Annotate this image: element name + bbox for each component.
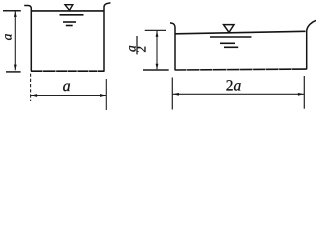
vertical dimension line a (left tank) [14, 12, 16, 71]
bottom arrowhead [156, 64, 159, 70]
surface symbol stroke 3 [224, 46, 238, 48]
surface symbol stroke 2 [63, 21, 76, 23]
water surface line right tank (slight scan tilt) [176, 31, 306, 34]
svg-text:2: 2 [134, 46, 149, 53]
left arrowhead [173, 93, 179, 96]
left wall of left tank [24, 6, 31, 72]
right wall of left tank [104, 3, 111, 72]
right extension line (2a dim) [303, 76, 305, 109]
horizontal dimension line a (left tank width) [31, 95, 106, 97]
surface symbol stroke 2 [220, 42, 235, 44]
tank bottom (dashed) right tank [175, 68, 307, 71]
bottom extension tick (left dim) [6, 71, 21, 73]
bottom arrowhead [14, 65, 17, 71]
top arrowhead [14, 11, 17, 17]
free surface symbol triangle left tank [65, 5, 73, 11]
left arrowhead [31, 94, 37, 97]
horizontal dimension line 2a [173, 93, 304, 95]
right arrowhead [100, 94, 106, 97]
water surface line left tank [31, 10, 104, 12]
top extension tick (a/2 dim) [145, 29, 166, 31]
svg-text:2a: 2a [226, 77, 242, 94]
left wall of right tank [170, 23, 175, 70]
tank bottom (dashed) left tank [31, 70, 105, 72]
dashed extension below left wall [30, 74, 32, 101]
right arrowhead [298, 93, 304, 96]
fraction bar of a/2 (rotated) [136, 36, 138, 54]
free surface symbol triangle right tank [224, 25, 235, 33]
right wall of right tank [307, 20, 316, 69]
vertical dimension line a/2 [156, 31, 158, 69]
water surface extension segment (left of tank, through dimension line) [3, 10, 21, 12]
bottom extension tick (a/2 dim) [143, 69, 169, 71]
surface symbol stroke 1 [60, 14, 84, 16]
surface symbol stroke 3 [66, 25, 73, 27]
svg-text:a: a [0, 33, 14, 40]
left extension line (2a dim) [171, 78, 173, 110]
svg-text:a: a [63, 78, 71, 95]
surface symbol stroke 1 [210, 36, 252, 38]
top arrowhead [156, 31, 159, 37]
solid extension below right wall [105, 79, 107, 110]
